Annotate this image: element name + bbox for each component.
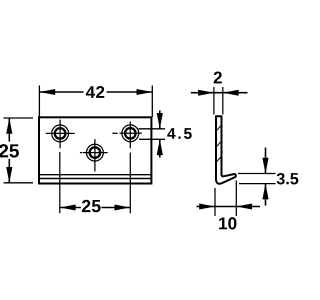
- hole H1 top-left: [46, 120, 75, 149]
- dimension 25 (left): [0, 118, 33, 183]
- bend line 2: [39, 178, 151, 180]
- bend line 1: [39, 174, 151, 176]
- plate outline (front view): [39, 117, 151, 183]
- dimension 25 (bottom, between holes): [60, 152, 131, 214]
- dimension 3.5 (flange height): [238, 148, 298, 206]
- dimension 10 (flange width): [197, 181, 261, 230]
- hole H2 top-right: [112, 122, 141, 149]
- dimension 4.5 (hole diameter): [139, 111, 192, 158]
- side profile (L-bracket section): [216, 116, 236, 183]
- hole H3 middle: [80, 139, 108, 171]
- dimension 42 (top): [39, 85, 152, 117]
- dimension 2 (thickness): [191, 70, 248, 115]
